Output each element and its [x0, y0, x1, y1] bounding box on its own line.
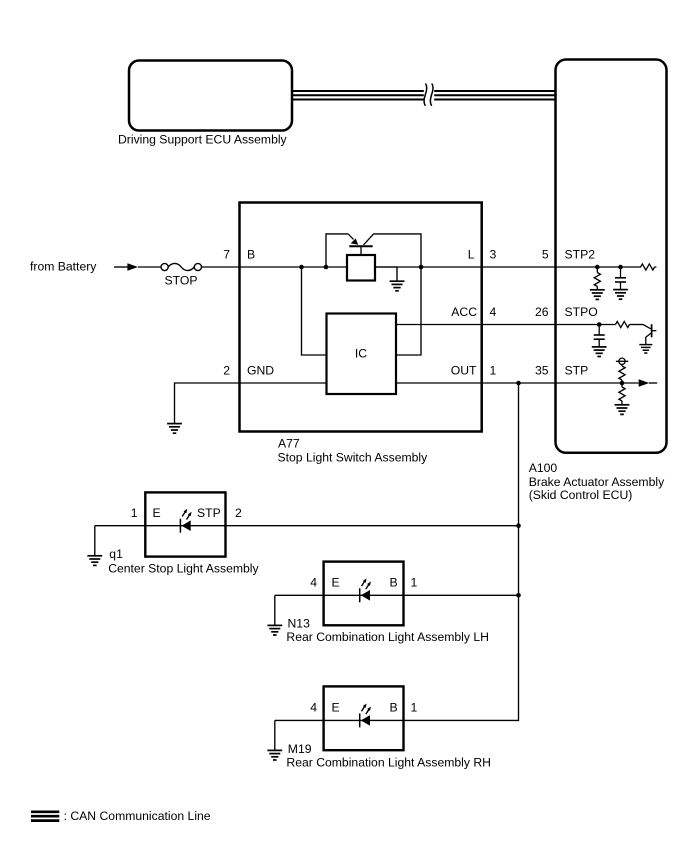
svg-text:IC: IC: [355, 347, 367, 361]
wire STP internal: [556, 382, 639, 384]
ground M19: [267, 750, 282, 760]
wire STPO internal: [556, 324, 616, 326]
wire M19 row: [275, 719, 406, 721]
svg-text:A77: A77: [278, 437, 300, 451]
svg-text:ACC: ACC: [451, 305, 477, 319]
wire L output: [375, 266, 556, 268]
capacitor C-stpo: [598, 325, 600, 336]
stop light switch contact box: [347, 255, 375, 281]
wire OUT output: [396, 382, 556, 384]
svg-text:1: 1: [490, 363, 497, 377]
junction loop right on wire B: [419, 265, 424, 270]
wire arrow to fuse: [138, 266, 161, 268]
svg-text:from Battery: from Battery: [30, 260, 97, 274]
svg-text:4: 4: [310, 576, 317, 590]
wire lamp bus vertical: [406, 383, 519, 720]
transistor Q-stpo: [643, 324, 656, 344]
A77 Stop Light Switch Assembly box: [240, 203, 482, 432]
svg-text:B: B: [390, 576, 398, 590]
CAN bus break symbol: [424, 85, 434, 107]
svg-text:5: 5: [542, 247, 549, 261]
junction STP2 capacitor: [618, 265, 623, 270]
wire fuse to A77 pin 7: [202, 266, 241, 268]
Center Stop Light Assembly box: [145, 492, 225, 556]
svg-text:(Skid Control ECU): (Skid Control ECU): [529, 488, 633, 502]
ground C-stp2: [613, 290, 628, 300]
wire ACC output: [396, 324, 556, 326]
wire N13 ground drop: [274, 595, 276, 625]
svg-text:26: 26: [535, 305, 549, 319]
wire switch to ground corner: [375, 267, 397, 281]
svg-text:Center Stop Light Assembly: Center Stop Light Assembly: [108, 562, 259, 576]
svg-text:2: 2: [235, 506, 242, 520]
junction STP2 resistor: [595, 265, 600, 270]
CAN bus wire (triple line): [292, 91, 556, 100]
ground N13: [267, 625, 282, 635]
ground R-stp: [615, 405, 630, 415]
svg-text:GND: GND: [247, 363, 274, 377]
wire M19 ground drop: [274, 720, 276, 750]
svg-text:q1: q1: [109, 547, 123, 561]
resistor R-stp upper: [621, 365, 623, 367]
Rear Combination Light Assembly RH box: [324, 686, 404, 750]
junction STPO capacitor: [597, 322, 602, 327]
svg-text:E: E: [332, 701, 340, 715]
transistor Q (stop light switch): [348, 234, 374, 255]
resistor R-stp2 series: [641, 264, 655, 270]
op-amp IC box: [327, 314, 397, 395]
fuse STOP: [161, 263, 201, 270]
svg-text:1: 1: [411, 576, 418, 590]
svg-text:N13: N13: [288, 617, 311, 631]
svg-text:M19: M19: [288, 742, 312, 756]
svg-text:STPO: STPO: [565, 305, 598, 319]
svg-text:Brake Actuator Assembly: Brake Actuator Assembly: [529, 475, 665, 489]
svg-text:Rear Combination Light Assembl: Rear Combination Light Assembly RH: [286, 755, 491, 769]
svg-text:OUT: OUT: [451, 363, 477, 377]
ground R-stp2: [590, 290, 605, 300]
svg-text:1: 1: [411, 701, 418, 715]
svg-text:4: 4: [490, 305, 497, 319]
ground A77 GND: [167, 424, 182, 434]
svg-text:Stop Light Switch Assembly: Stop Light Switch Assembly: [278, 451, 429, 465]
arrow battery direction: [127, 263, 138, 270]
svg-text:STOP: STOP: [165, 273, 198, 287]
svg-text:4: 4: [310, 701, 317, 715]
Rear Combination Light Assembly LH box: [324, 562, 404, 626]
junction node to IC: [299, 265, 304, 270]
ground q1: [87, 556, 102, 566]
wire N13 row: [275, 594, 519, 596]
junction CSL on bus: [516, 523, 521, 528]
junction STP divider: [620, 381, 625, 386]
svg-text:Driving Support ECU Assembly: Driving Support ECU Assembly: [118, 132, 288, 146]
junction node to transistor loop: [324, 265, 329, 270]
junction OUT to lamps: [516, 381, 521, 386]
LED rear combination RH: [360, 704, 371, 728]
svg-text:STP: STP: [197, 506, 221, 520]
svg-text:1: 1: [131, 506, 138, 520]
svg-text:STP2: STP2: [565, 247, 596, 261]
svg-text:STP: STP: [565, 363, 589, 377]
svg-text:B: B: [390, 701, 398, 715]
svg-text:E: E: [332, 576, 340, 590]
wire CSL row: [95, 525, 519, 527]
wire STP2 internal: [556, 266, 642, 268]
terminal circle STP pullup: [619, 358, 625, 364]
resistor R-stpo series: [616, 321, 630, 327]
ground C-stpo: [592, 347, 607, 357]
resistor R-stp2 pulldown: [596, 267, 598, 273]
junction N13 on bus: [516, 593, 521, 598]
svg-text:L: L: [468, 247, 475, 261]
resistor R-stp lower: [621, 383, 623, 387]
wire transistor loop left: [326, 234, 348, 267]
wire q1 ground drop: [94, 526, 96, 556]
ground switch: [390, 281, 405, 291]
Driving Support ECU Assembly box: [129, 61, 292, 131]
A100 Brake Actuator Assembly box: [556, 60, 667, 453]
svg-text:: CAN Communication Line: : CAN Communication Line: [64, 809, 211, 823]
svg-text:35: 35: [535, 363, 549, 377]
wire transistor loop right: [374, 234, 421, 355]
ground Q-stpo: [639, 345, 652, 353]
wire GND pin 2: [175, 383, 327, 424]
wire B to switch: [240, 266, 347, 268]
arrow STP out: [639, 379, 650, 386]
svg-text:B: B: [247, 247, 255, 261]
svg-text:E: E: [153, 506, 161, 520]
wire IC left feed: [302, 267, 327, 355]
svg-text:A100: A100: [529, 461, 558, 475]
wire battery feed: [114, 266, 128, 268]
wire to transistor base: [630, 324, 644, 326]
svg-text:3: 3: [490, 247, 497, 261]
svg-text:Rear Combination Light Assembl: Rear Combination Light Assembly LH: [286, 630, 489, 644]
capacitor C-stp2: [620, 267, 622, 278]
LED center stop light: [180, 509, 191, 533]
legend CAN symbol: [31, 812, 59, 821]
svg-text:7: 7: [223, 247, 230, 261]
LED rear combination LH: [360, 578, 371, 602]
svg-text:2: 2: [223, 363, 230, 377]
